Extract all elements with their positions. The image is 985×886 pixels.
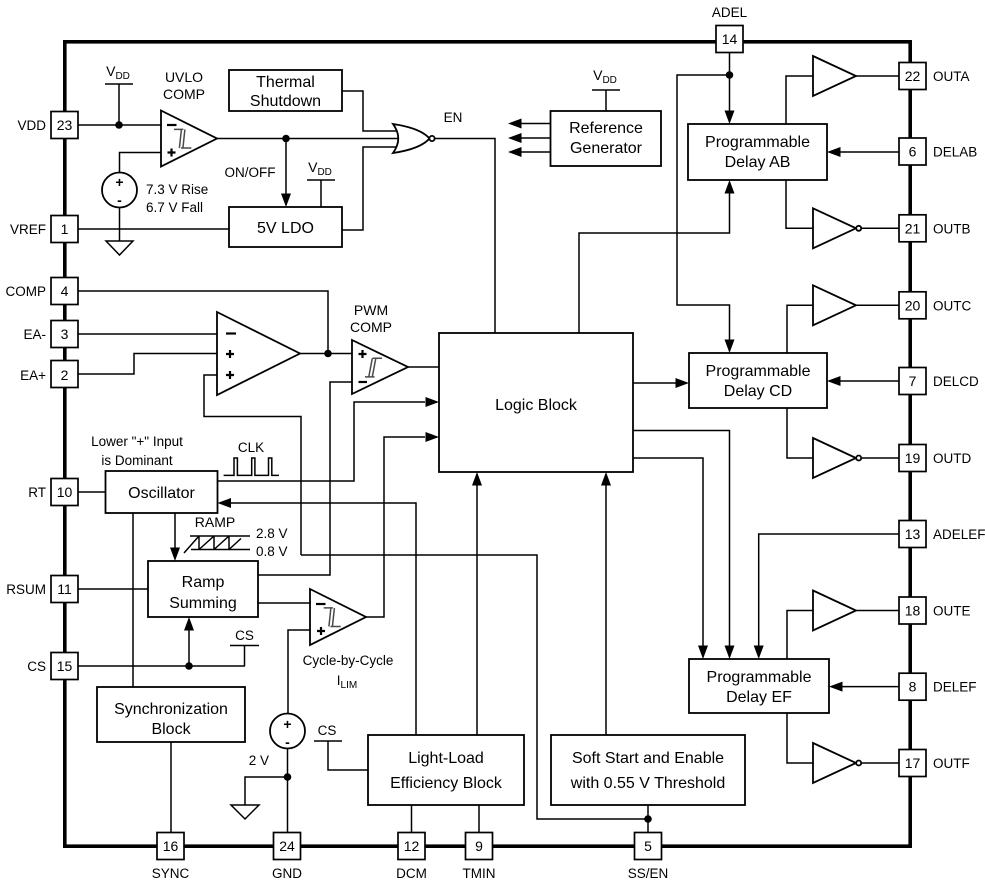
svg-text:4: 4 bbox=[61, 283, 69, 299]
svg-text:is Dominant: is Dominant bbox=[101, 453, 173, 468]
node VDD supply at pin 23 bbox=[105, 63, 133, 125]
svg-text:19: 19 bbox=[905, 450, 921, 466]
block Oscillator bbox=[106, 471, 218, 513]
svg-text:SS/EN: SS/EN bbox=[628, 866, 669, 881]
svg-text:18: 18 bbox=[905, 603, 921, 619]
svg-text:5: 5 bbox=[644, 838, 652, 854]
pin 17 OUTF bbox=[899, 750, 970, 777]
svg-text:2 V: 2 V bbox=[249, 753, 269, 768]
svg-text:Logic Block: Logic Block bbox=[495, 397, 578, 414]
svg-text:Summing: Summing bbox=[169, 595, 237, 612]
svg-text:CS: CS bbox=[27, 659, 46, 674]
node VDD supply at Reference Generator bbox=[592, 67, 620, 111]
node junction COMP/EA output bbox=[324, 350, 332, 358]
svg-text:ADELEF: ADELEF bbox=[933, 527, 985, 542]
svg-text:COMP: COMP bbox=[163, 86, 205, 102]
svg-text:12: 12 bbox=[404, 838, 420, 854]
pin 4 COMP bbox=[6, 278, 79, 305]
block Synchronization Block bbox=[97, 687, 245, 742]
block Thermal Shutdown bbox=[229, 70, 342, 111]
wire Soft Start output arrow into Logic Block bbox=[601, 472, 611, 735]
svg-text:6.7 V Fall: 6.7 V Fall bbox=[146, 200, 203, 215]
svg-text:PWM: PWM bbox=[354, 302, 388, 318]
svg-text:1: 1 bbox=[61, 221, 69, 237]
svg-text:Reference: Reference bbox=[569, 120, 643, 137]
op-amp PWM COMP comparator bbox=[350, 302, 408, 394]
source V1 7.3V/6.7V threshold bbox=[102, 173, 208, 216]
svg-text:Ramp: Ramp bbox=[182, 574, 225, 591]
wire Delay CD to buffer C bbox=[787, 305, 813, 353]
svg-text:Generator: Generator bbox=[570, 140, 643, 157]
wire ILIM + input to 2V source bbox=[288, 630, 310, 714]
node junction GND net bbox=[284, 773, 292, 781]
pin 5 SS/EN bbox=[628, 833, 669, 882]
svg-text:Shutdown: Shutdown bbox=[250, 93, 321, 110]
node junction CS bbox=[185, 662, 193, 670]
svg-text:5V LDO: 5V LDO bbox=[257, 220, 314, 237]
svg-text:7: 7 bbox=[909, 373, 917, 389]
svg-text:17: 17 bbox=[905, 755, 921, 771]
wire EA output to PWM comparator bbox=[300, 353, 352, 355]
wire pin15 CS to CS tap bbox=[78, 628, 259, 666]
svg-text:GND: GND bbox=[272, 866, 302, 881]
wire reference output arrow 3 bbox=[508, 147, 550, 157]
wire pin14 ADEL arrow into Delay AB bbox=[725, 52, 735, 124]
pin 16 SYNC bbox=[152, 833, 190, 882]
node VDD supply at 5V LDO bbox=[307, 159, 335, 207]
wire Delay AB to buffer A bbox=[786, 76, 813, 124]
pin 14 ADEL bbox=[712, 5, 748, 53]
pin 7 DELCD bbox=[899, 368, 979, 395]
node CLK label and waveform bbox=[224, 440, 279, 475]
svg-text:OUTA: OUTA bbox=[933, 69, 970, 84]
wire pin23 to UVLO inverting input bbox=[78, 124, 161, 126]
block Light-Load Efficiency Block bbox=[368, 735, 524, 805]
wire source to ground bbox=[119, 208, 121, 242]
svg-text:Delay CD: Delay CD bbox=[724, 383, 792, 400]
pin 12 DCM bbox=[396, 833, 427, 882]
svg-text:21: 21 bbox=[905, 220, 921, 236]
wire Delay AB to buffer B bbox=[786, 180, 813, 228]
node junction ADEL bbox=[726, 71, 734, 79]
svg-text:23: 23 bbox=[57, 117, 73, 133]
svg-text:Programmable: Programmable bbox=[706, 363, 811, 380]
svg-text:DCM: DCM bbox=[396, 866, 427, 881]
wire GND branch to ground symbol bbox=[245, 777, 288, 805]
svg-text:ADEL: ADEL bbox=[712, 5, 748, 20]
wire Light-Load to pin12 DCM bbox=[411, 805, 413, 833]
wire reference output arrow 2 bbox=[508, 133, 550, 143]
pin 19 OUTD bbox=[899, 445, 971, 472]
wire pin8 DELEF arrow into Delay EF bbox=[829, 682, 899, 692]
svg-text:+: + bbox=[115, 174, 123, 190]
svg-text:OUTD: OUTD bbox=[933, 451, 971, 466]
wire Ramp Summing output to ILIM comparator bbox=[258, 602, 310, 604]
svg-text:Programmable: Programmable bbox=[705, 134, 810, 151]
wire Logic Block arrow up into Delay AB bbox=[579, 180, 735, 333]
svg-text:VDD: VDD bbox=[17, 118, 46, 133]
wire SS/EN net to EA and Soft Start bbox=[301, 555, 648, 819]
svg-text:CLK: CLK bbox=[238, 440, 264, 455]
wire ILIM output arrow into Logic Block bbox=[366, 432, 439, 617]
source V2 2V reference bbox=[249, 714, 305, 769]
wire PWM output to Logic Block bbox=[408, 366, 439, 368]
block Ramp Summing bbox=[148, 561, 258, 617]
wire pin4 COMP to EA output node bbox=[78, 291, 328, 350]
svg-text:ON/OFF: ON/OFF bbox=[225, 165, 276, 180]
wire pin6 DELAB arrow into Delay AB bbox=[827, 147, 899, 157]
svg-text:UVLO: UVLO bbox=[165, 69, 203, 85]
buffer E output bbox=[813, 591, 899, 631]
buffer B inverting output bbox=[813, 208, 899, 248]
ground below threshold source bbox=[106, 241, 133, 255]
wire pin10 RT to Oscillator bbox=[78, 491, 106, 493]
svg-text:6: 6 bbox=[909, 144, 917, 160]
svg-text:+: + bbox=[283, 716, 291, 732]
svg-text:DELEF: DELEF bbox=[933, 680, 977, 695]
svg-text:Oscillator: Oscillator bbox=[128, 485, 195, 502]
block Logic Block bbox=[439, 333, 633, 472]
wire Logic Block output 2 arrow into Delay EF bbox=[633, 458, 708, 659]
svg-text:11: 11 bbox=[57, 581, 72, 597]
wire 2V source to pin24 GND bbox=[287, 749, 289, 834]
svg-text:13: 13 bbox=[905, 526, 921, 542]
pin 6 DELAB bbox=[899, 138, 977, 165]
svg-text:RSUM: RSUM bbox=[6, 582, 46, 597]
svg-text:VREF: VREF bbox=[10, 222, 46, 237]
wire EA lower + input from SS/EN net bbox=[204, 375, 301, 555]
svg-text:7.3 V Rise: 7.3 V Rise bbox=[146, 182, 208, 197]
svg-text:-: - bbox=[117, 192, 122, 208]
pin 23 VDD bbox=[17, 112, 78, 139]
svg-text:DELAB: DELAB bbox=[933, 145, 977, 160]
wire CS arrow up into Ramp Summing bbox=[184, 617, 194, 666]
svg-text:OUTB: OUTB bbox=[933, 221, 971, 236]
label Lower + Input is Dominant bbox=[91, 434, 183, 468]
svg-text:RT: RT bbox=[28, 485, 46, 500]
wire Light-Load output arrow into Logic Block bbox=[472, 472, 482, 735]
wire UVLO + input to threshold source bbox=[120, 153, 162, 173]
svg-text:DELCD: DELCD bbox=[933, 374, 979, 389]
svg-text:8: 8 bbox=[909, 679, 917, 695]
svg-text:Programmable: Programmable bbox=[707, 669, 812, 686]
wire pin1 VREF to 5V LDO bbox=[78, 228, 229, 230]
pin 24 GND bbox=[272, 833, 302, 882]
svg-text:Delay EF: Delay EF bbox=[726, 689, 792, 706]
wire 5V LDO to OR gate bottom input bbox=[342, 147, 398, 230]
block Reference Generator bbox=[551, 111, 662, 166]
svg-text:with 0.55 V Threshold: with 0.55 V Threshold bbox=[570, 775, 725, 792]
svg-text:2: 2 bbox=[61, 367, 69, 383]
wire PWM- input to Ramp Summing output bbox=[258, 382, 352, 575]
svg-text:RAMP: RAMP bbox=[195, 514, 235, 530]
wire Oscillator ramp arrow into Ramp Summing bbox=[170, 513, 180, 561]
svg-text:Cycle-by-Cycle: Cycle-by-Cycle bbox=[303, 653, 394, 668]
svg-text:EA-: EA- bbox=[23, 327, 46, 342]
svg-text:15: 15 bbox=[57, 658, 73, 674]
wire pin3 EA- to error amp bbox=[78, 333, 217, 335]
wire pin13 ADELEF arrow into Delay EF bbox=[754, 534, 899, 659]
pin 20 OUTC bbox=[899, 292, 971, 319]
svg-text:10: 10 bbox=[57, 484, 73, 500]
pin 9 TMIN bbox=[463, 833, 496, 882]
svg-text:Synchronization: Synchronization bbox=[114, 701, 228, 718]
pin 18 OUTE bbox=[899, 597, 971, 624]
block Programmable Delay CD bbox=[689, 353, 827, 408]
wire pin11 RSUM to Ramp Summing bbox=[78, 588, 148, 590]
wire UVLO output to OR gate middle input bbox=[217, 138, 402, 140]
gate U2 3-input NOR (enable) bbox=[393, 124, 435, 153]
svg-text:SYNC: SYNC bbox=[152, 866, 190, 881]
pin 10 RT bbox=[28, 479, 78, 506]
node junction VDD/pin23 bbox=[115, 121, 123, 129]
pin 3 EA- bbox=[23, 321, 78, 348]
svg-text:COMP: COMP bbox=[350, 319, 392, 335]
block Soft Start and Enable with 0.55 V Threshold bbox=[551, 735, 745, 805]
pin 2 EA+ bbox=[20, 361, 78, 388]
block Programmable Delay EF bbox=[689, 659, 829, 713]
wire Light-Load to pin9 TMIN bbox=[478, 805, 480, 833]
svg-text:9: 9 bbox=[475, 838, 483, 854]
pin 15 CS bbox=[27, 653, 78, 680]
wire pin7 DELCD arrow into Delay CD bbox=[827, 376, 899, 386]
wire Delay CD to buffer D bbox=[787, 408, 813, 458]
svg-text:22: 22 bbox=[905, 68, 921, 84]
svg-text:Block: Block bbox=[151, 721, 191, 738]
svg-text:CS: CS bbox=[318, 723, 337, 738]
pin 8 DELEF bbox=[899, 673, 977, 700]
svg-text:14: 14 bbox=[722, 31, 738, 47]
svg-text:Thermal: Thermal bbox=[256, 74, 315, 91]
op-amp EA error amplifier bbox=[217, 312, 300, 395]
svg-text:20: 20 bbox=[905, 297, 921, 313]
svg-text:Light-Load: Light-Load bbox=[408, 750, 484, 767]
svg-text:Efficiency Block: Efficiency Block bbox=[390, 775, 503, 792]
wire ON/OFF arrow into 5V LDO bbox=[225, 139, 292, 208]
svg-text:TMIN: TMIN bbox=[463, 866, 496, 881]
ground below 2V source bbox=[231, 805, 259, 819]
pin 21 OUTB bbox=[899, 215, 971, 242]
svg-text:Delay AB: Delay AB bbox=[725, 154, 791, 171]
pin 11 RSUM bbox=[6, 576, 78, 603]
wire Synchronization Block to pin16 SYNC bbox=[170, 742, 172, 833]
pin 1 VREF bbox=[10, 216, 78, 243]
svg-text:OUTC: OUTC bbox=[933, 298, 971, 313]
svg-text:OUTF: OUTF bbox=[933, 756, 970, 771]
wire Soft Start block to pin5 SS/EN bbox=[647, 805, 649, 833]
wire ADEL branch arrow into Delay CD bbox=[677, 75, 735, 353]
node CS tap at Light-Load block bbox=[314, 723, 368, 770]
block Programmable Delay AB bbox=[688, 124, 827, 180]
buffer A output bbox=[813, 56, 899, 96]
pin 13 ADELEF bbox=[899, 521, 985, 548]
op-amp UVLO COMP comparator bbox=[161, 69, 217, 167]
svg-text:OUTE: OUTE bbox=[933, 604, 971, 619]
chip outer border bbox=[65, 42, 910, 846]
svg-text:16: 16 bbox=[163, 838, 179, 854]
wire Oscillator CLK output arrow into Logic Block bbox=[218, 397, 440, 481]
block 5V LDO bbox=[229, 207, 342, 247]
wire reference output arrow 1 bbox=[508, 119, 550, 129]
svg-text:CS: CS bbox=[235, 628, 254, 643]
wire Logic Block output 1 arrow into Delay EF bbox=[633, 431, 735, 660]
wire EN from NOR output down to Logic Block bbox=[435, 139, 495, 334]
svg-text:Soft Start and Enable: Soft Start and Enable bbox=[572, 750, 724, 767]
svg-text:EA+: EA+ bbox=[20, 368, 46, 383]
wire Logic Block output arrow into Delay CD bbox=[633, 378, 689, 388]
svg-text:24: 24 bbox=[279, 838, 295, 854]
buffer C output bbox=[813, 285, 899, 325]
svg-text:3: 3 bbox=[61, 326, 69, 342]
wire Thermal Shutdown to OR gate top input bbox=[342, 91, 398, 131]
pin 22 OUTA bbox=[899, 63, 970, 90]
svg-text:2.8 V: 2.8 V bbox=[256, 526, 288, 541]
wire Delay EF to buffer E bbox=[787, 611, 813, 660]
node junction SS/EN bbox=[644, 815, 652, 823]
svg-text:EN: EN bbox=[444, 110, 463, 125]
svg-text:COMP: COMP bbox=[6, 284, 47, 299]
wire pin2 EA+ to error amp bbox=[78, 354, 217, 375]
wire Light-Load DCM arrow into Oscillator bbox=[218, 498, 417, 735]
buffer D inverting output bbox=[813, 438, 899, 478]
wire Oscillator to Synchronization Block bbox=[132, 513, 134, 687]
svg-text:0.8 V: 0.8 V bbox=[256, 544, 288, 559]
wire Delay EF to buffer F bbox=[787, 713, 813, 763]
node junction UVLO output / ON-OFF bbox=[282, 135, 290, 143]
svg-text:-: - bbox=[285, 734, 290, 750]
svg-text:Lower "+" Input: Lower "+" Input bbox=[91, 434, 183, 449]
node RAMP waveform 2.8V/0.8V bbox=[184, 514, 288, 559]
buffer F inverting output bbox=[813, 743, 899, 783]
op-amp Cycle-by-Cycle ILIM comparator bbox=[303, 589, 394, 691]
